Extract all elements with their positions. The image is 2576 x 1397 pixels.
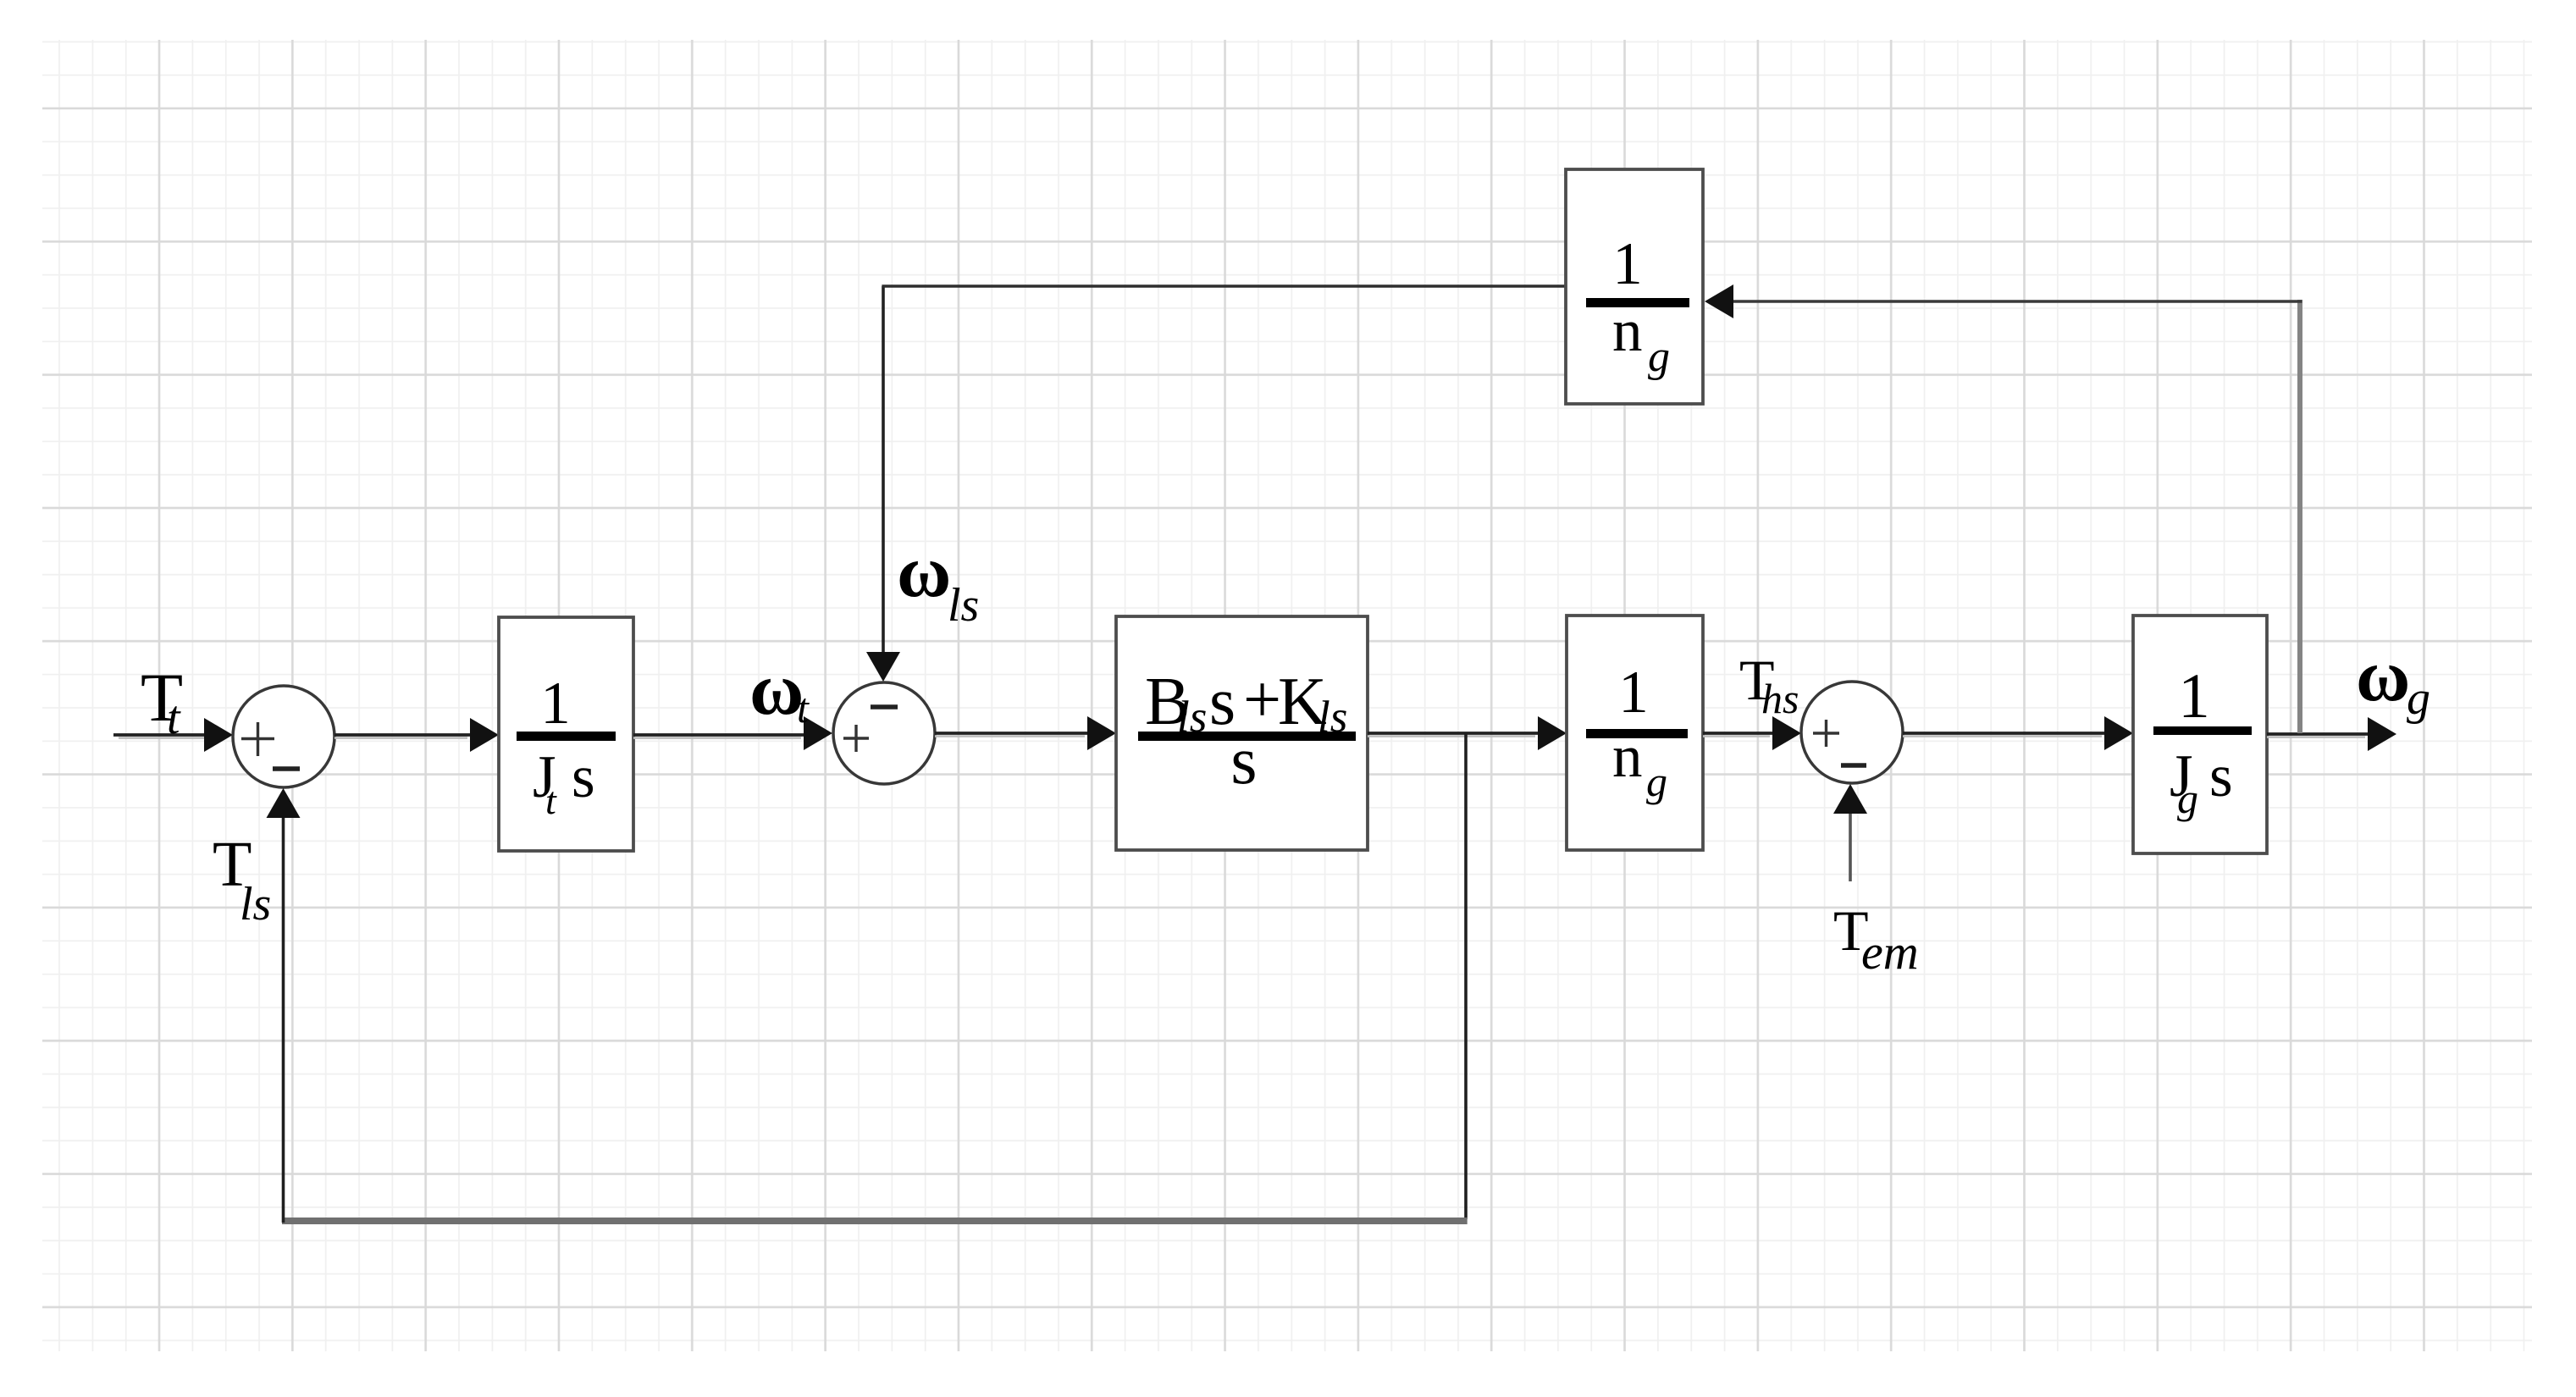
S3 minus sign	[1841, 763, 1866, 768]
svg-text:t: t	[797, 684, 810, 732]
wire vertical into S2 top	[882, 286, 885, 654]
arrow into block 1/ng top	[1705, 284, 1733, 318]
wire output omega_g	[2267, 732, 2370, 736]
svg-text:em: em	[1861, 925, 1919, 980]
label T_t	[141, 659, 183, 744]
label T_em	[1833, 898, 1919, 980]
wire Tt input	[113, 733, 210, 737]
arrow into S3	[1772, 716, 1801, 750]
wire S2 to block Bls	[935, 732, 1090, 735]
node Tls tap: wire vertical down	[1464, 733, 1468, 1219]
block 1/ng top	[1566, 169, 1703, 404]
svg-text:n: n	[1612, 724, 1643, 790]
arrow into S1 bottom	[267, 788, 301, 818]
wire feedback right vertical	[2297, 300, 2302, 733]
label T_hs	[1739, 648, 1799, 722]
S3 plus sign	[1813, 720, 1839, 747]
wire feedback left vertical up	[282, 816, 285, 1223]
svg-text:ω: ω	[897, 531, 951, 613]
wire block 1/ng to S3	[1703, 732, 1775, 735]
svg-text:g: g	[1648, 333, 1670, 381]
S2 plus sign	[843, 725, 869, 752]
wire S1 to block 1/Jts	[334, 733, 473, 737]
summing junction S3	[1801, 682, 1903, 783]
label T_ls	[213, 829, 271, 930]
wire T_em vertical	[1849, 814, 1852, 881]
arrow output	[2368, 717, 2396, 751]
wire feedback top horizontal	[1733, 300, 2302, 303]
svg-text:ω: ω	[749, 649, 804, 731]
wire block 1/Jts to S2	[633, 733, 806, 737]
arrow into S2 top	[866, 652, 900, 682]
svg-text:g: g	[1646, 758, 1667, 805]
svg-text:s: s	[2209, 743, 2233, 809]
svg-text:hs: hs	[1761, 675, 1799, 722]
svg-text:s: s	[1230, 724, 1257, 798]
arrow into block 1/Jts	[470, 718, 499, 752]
wire S3 to block 1/Jgs	[1903, 732, 2107, 735]
label omega_g	[2356, 635, 2430, 725]
svg-text:t: t	[545, 779, 557, 822]
svg-text:g: g	[2407, 672, 2430, 725]
arrow into block 1/Jgs	[2104, 716, 2133, 750]
svg-text:ls: ls	[948, 579, 979, 632]
svg-text:ω: ω	[2356, 635, 2410, 717]
wire block Bls to block 1/ng	[1368, 732, 1540, 735]
label omega_ls	[897, 531, 979, 632]
svg-text:t: t	[167, 692, 181, 744]
svg-text:1: 1	[540, 671, 571, 737]
arrow into S3 bottom	[1833, 784, 1867, 814]
summing junction S2	[833, 682, 935, 784]
wire feedback bottom horizontal	[282, 1218, 1468, 1224]
S1 plus sign	[241, 722, 274, 756]
svg-text:s: s	[572, 744, 595, 810]
arrow into block Bls	[1087, 716, 1116, 750]
wire feedback top-left horizontal	[882, 284, 1566, 288]
arrow into block 1/ng	[1538, 716, 1567, 750]
svg-text:1: 1	[1618, 660, 1649, 726]
block 1/ng middle	[1567, 616, 1703, 850]
summing junction S1	[233, 686, 334, 787]
arrow into summing junction S2	[804, 716, 832, 750]
block 1/Jgs	[2133, 616, 2267, 853]
S1 minus sign	[273, 766, 300, 771]
S2 minus sign	[871, 704, 898, 710]
svg-text:1: 1	[2178, 661, 2210, 732]
block 1/Jts	[499, 617, 633, 851]
arrow into summing junction S1	[204, 718, 233, 752]
svg-text:1: 1	[1612, 231, 1643, 297]
svg-text:ls: ls	[240, 878, 271, 930]
svg-text:n: n	[1612, 298, 1643, 364]
label omega_t	[749, 649, 810, 732]
block (Blss+Kls)/s	[1116, 616, 1368, 850]
svg-text:g: g	[2177, 775, 2198, 822]
